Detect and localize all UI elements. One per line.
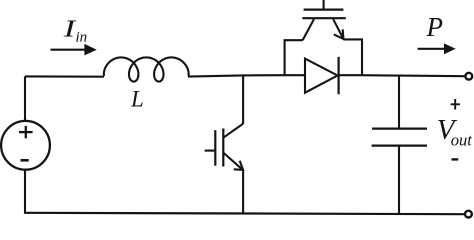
capacitor C1 — [372, 76, 427, 214]
diode D1 — [305, 57, 339, 95]
label Iin — [63, 15, 88, 45]
label + (output polarity) — [451, 99, 460, 110]
svg-text:in: in — [76, 30, 88, 46]
inductor L — [104, 57, 189, 81]
wire top-right segment — [339, 75, 465, 76]
label - (output polarity) — [452, 158, 459, 160]
power arrow P — [418, 43, 456, 54]
terminal bottom output — [465, 211, 472, 218]
wire top-left segment — [25, 75, 104, 77]
svg-text:P: P — [426, 12, 444, 42]
wire top-middle segment — [188, 75, 305, 76]
label Vout — [437, 114, 473, 149]
transistor Q2 (upper IGBT) — [302, 0, 346, 40]
terminal top output — [465, 73, 472, 80]
transistor Q1 (lower IGBT) — [205, 74, 244, 213]
wire bottom — [25, 213, 464, 214]
svg-text:out: out — [451, 130, 473, 149]
wire left vertical bottom — [24, 170, 26, 214]
wire Q2 frame left — [285, 40, 303, 76]
voltage source V1 — [1, 121, 50, 170]
wire Q2 frame right — [343, 39, 362, 75]
wire left vertical top — [24, 76, 26, 121]
current arrow Iin — [51, 44, 97, 56]
svg-text:L: L — [130, 87, 144, 112]
